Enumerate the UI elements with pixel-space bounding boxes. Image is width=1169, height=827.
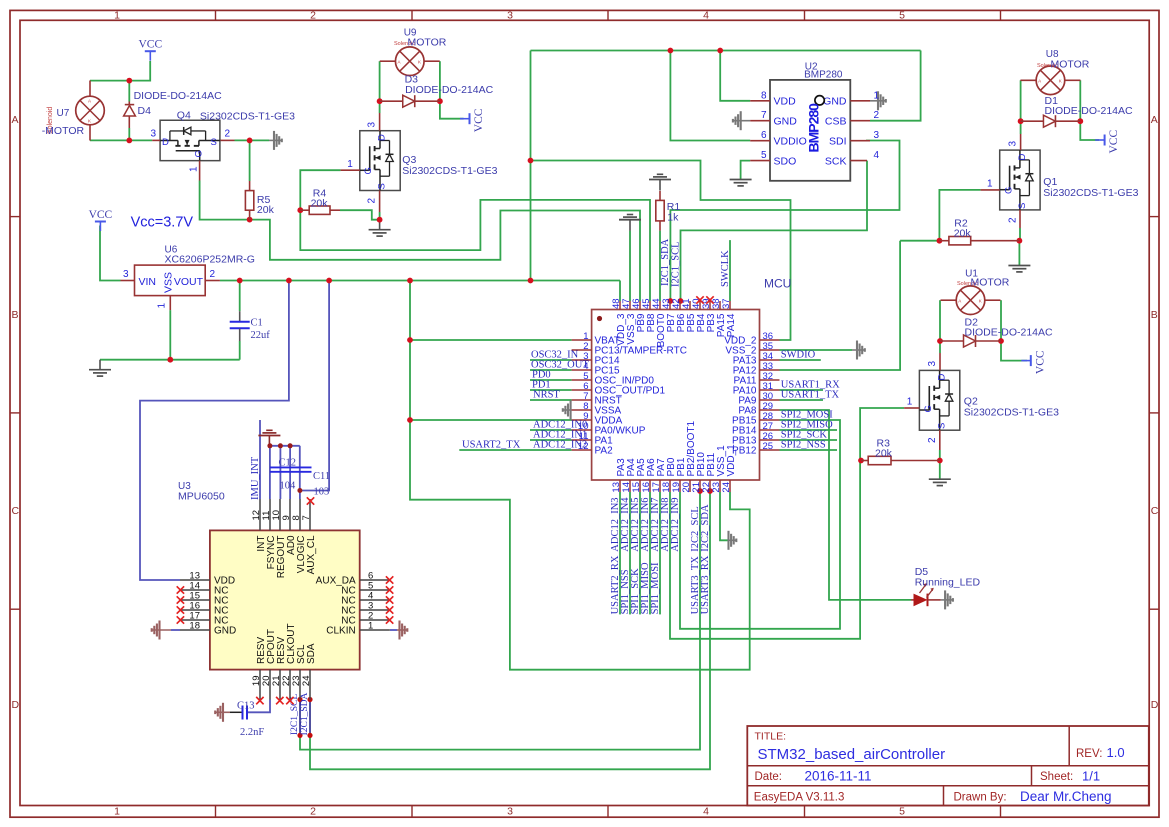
junction (1019.4,240.7)	[1017, 238, 1023, 244]
wire D3 to VCC flag	[440, 101, 464, 119]
junction (710,491)	[707, 488, 713, 494]
U6 pin 3 stub	[121, 280, 135, 282]
wire ADC12_IN7 stub	[659, 492, 661, 614]
no-connect X U3 left pin y=590	[177, 586, 184, 593]
svg-text:USART3_RX: USART3_RX	[700, 555, 711, 614]
svg-text:1: 1	[987, 179, 993, 190]
svg-text:A: A	[958, 298, 961, 303]
svg-text:C11: C11	[313, 471, 330, 482]
svg-text:2: 2	[310, 806, 316, 818]
no-connect X U3 pin21	[276, 697, 283, 704]
svg-text:5: 5	[761, 150, 767, 161]
wire ADC12_IN1 stub	[530, 439, 572, 441]
power flag VCC (U9)	[469, 113, 471, 124]
svg-text:S: S	[937, 423, 948, 429]
wire MPU GND pin lead (blue)	[171, 629, 180, 631]
wire Q4 gate net to MCU PB9	[250, 211, 640, 302]
diode D4	[125, 104, 134, 106]
wire Q1 source to R2 node	[1019, 228, 1021, 241]
Q1 pin 3 stub	[1020, 134, 1022, 150]
wire CLKIN lead (blue)	[390, 629, 397, 631]
junction MPU (300,735.4)	[297, 733, 302, 738]
resistor R4	[309, 206, 330, 214]
svg-text:3: 3	[507, 9, 513, 21]
ground arrow MCU VSSA	[562, 409, 571, 411]
wire VOUT 2.5V rail	[220, 280, 620, 282]
svg-text:Q4: Q4	[177, 110, 191, 122]
svg-text:4: 4	[703, 9, 709, 21]
wire VDD_2 feed rail	[531, 161, 791, 341]
svg-text:Sheet:: Sheet:	[1040, 771, 1073, 783]
svg-text:4: 4	[874, 150, 880, 161]
svg-text:1.0: 1.0	[1107, 745, 1125, 760]
svg-text:2016-11-11: 2016-11-11	[805, 769, 872, 784]
svg-text:18: 18	[189, 621, 200, 632]
svg-text:VIN: VIN	[139, 276, 157, 288]
wire I2C1_SDA net BMP SDI to MCU PB7	[670, 141, 899, 302]
svg-text:SWDIO: SWDIO	[781, 350, 816, 361]
svg-text:4: 4	[703, 806, 709, 818]
svg-text:A: A	[1151, 114, 1158, 126]
wire VCC riser to top rail	[530, 51, 532, 281]
svg-text:ADC12_IN9: ADC12_IN9	[670, 497, 681, 551]
svg-text:3: 3	[927, 361, 938, 367]
resistor R5	[245, 191, 253, 211]
wire VSS_2 to ground	[780, 349, 853, 351]
ground arrow MPU GND pin18	[151, 629, 171, 631]
svg-text:20k: 20k	[954, 228, 972, 240]
no-connect X U3 right pin y=610	[386, 606, 393, 613]
svg-text:K: K	[1059, 79, 1062, 84]
svg-text:SDI: SDI	[829, 135, 847, 147]
resistor R1	[656, 200, 664, 221]
junction (1080.3,121.2)	[1077, 118, 1083, 124]
junction (249.6,219.6)	[247, 217, 253, 223]
wire U8 motor left to D1	[1020, 80, 1022, 121]
junction (530.5,160.5)	[528, 158, 534, 164]
junction (1001,341)	[998, 338, 1004, 344]
wire PA12 to Q1 gate/R2	[900, 240, 939, 242]
ground arrow MPU CLKIN	[397, 629, 408, 631]
wire R5 top	[249, 140, 251, 181]
IC MCU STM32 box	[592, 310, 760, 481]
wire Q2 gate net to MCU PB0	[670, 408, 904, 639]
svg-text:-MOTOR: -MOTOR	[42, 125, 85, 137]
ground flipped above MPU (dark red)	[266, 429, 272, 431]
ground under Q3 source	[379, 220, 381, 230]
junction (1020.6,121.2)	[1018, 118, 1024, 124]
U2 pin stubs	[750, 100, 770, 102]
svg-text:Vcc=3.7V: Vcc=3.7V	[131, 215, 194, 231]
svg-text:7: 7	[301, 515, 312, 520]
ground arrow BMP GND pin1	[870, 100, 886, 102]
power flag VCC (U8)	[1104, 135, 1106, 146]
wire VBAT net vertical	[410, 281, 750, 670]
no-connect X U3 pin22	[286, 697, 293, 704]
junction (129.3,80.6)	[126, 78, 132, 84]
ground arrow D5 cathode	[941, 599, 954, 601]
svg-text:PA14: PA14	[726, 313, 737, 337]
svg-text:C: C	[12, 505, 20, 517]
svg-text:A: A	[397, 59, 400, 64]
wire CPOUT to C13 (blue)	[248, 700, 271, 713]
junction (249.6,140.4)	[247, 138, 253, 144]
no-connect X U3 left pin y=610	[177, 606, 184, 613]
wire 2.5V rail to MPU VDD (blue)	[140, 281, 289, 581]
svg-text:VDD: VDD	[774, 96, 797, 108]
svg-text:K: K	[418, 59, 421, 64]
wire U9 motor right to D3	[439, 61, 441, 101]
svg-text:2: 2	[225, 129, 231, 140]
svg-text:CSB: CSB	[825, 116, 847, 128]
svg-text:8: 8	[761, 90, 767, 101]
junction (329.1,280.5)	[326, 278, 332, 284]
svg-text:2.2nF: 2.2nF	[240, 727, 264, 738]
resistor R3	[868, 456, 891, 464]
IC U6 box	[135, 265, 206, 296]
wire Q3 source stub	[379, 212, 381, 220]
wire ADC12_IN0 stub	[530, 429, 572, 431]
svg-text:25: 25	[763, 441, 774, 452]
svg-text:AUX_CL: AUX_CL	[306, 535, 317, 574]
svg-text:C12: C12	[279, 458, 297, 469]
junction (940,341)	[937, 338, 943, 344]
junction (288.9,280.5)	[286, 278, 292, 284]
wire SPI2_SCK stub	[780, 439, 838, 441]
svg-text:TITLE:: TITLE:	[755, 731, 787, 743]
svg-text:3: 3	[367, 122, 378, 128]
svg-text:20k: 20k	[311, 198, 329, 210]
svg-text:3: 3	[123, 269, 129, 280]
wire Q2 drain stub	[939, 341, 941, 353]
svg-text:2: 2	[367, 198, 378, 204]
svg-text:1: 1	[907, 397, 913, 408]
wire USART1_RX stub	[780, 389, 824, 391]
wire VCC to U6 VIN	[100, 226, 121, 281]
ground arrow C13	[215, 711, 230, 713]
MCU pin1 marker dot	[597, 316, 602, 321]
junction (939.8,460.5)	[937, 458, 943, 464]
capacitor C12/C11 plates	[270, 466, 312, 468]
svg-text:SPI2_NSS: SPI2_NSS	[781, 440, 826, 451]
wire BMP SDO to ground	[741, 161, 751, 179]
junction (300.3,210.2)	[297, 207, 303, 213]
svg-text:VCC: VCC	[138, 39, 162, 51]
motor U9	[395, 47, 424, 76]
svg-text:D4: D4	[138, 105, 152, 117]
svg-text:C: C	[1151, 505, 1159, 517]
svg-text:SDO: SDO	[774, 155, 797, 167]
wire SPI2_MISO stub	[780, 429, 838, 431]
svg-text:STM32_based_airController: STM32_based_airController	[758, 746, 946, 763]
wire 2.5V rail to MPU VLOGIC (blue)	[300, 281, 329, 491]
svg-text:1: 1	[368, 621, 373, 632]
no-connect X U3 AUX_CL	[307, 497, 314, 504]
svg-text:24: 24	[301, 676, 312, 687]
ground arrow BMP GND pin7	[733, 120, 751, 122]
junction (379.6,101.2)	[377, 98, 383, 104]
svg-text:D: D	[12, 699, 20, 711]
wire SWDIO stub	[780, 359, 821, 361]
svg-text:MOTOR: MOTOR	[971, 277, 1010, 289]
wire VDDA	[410, 419, 572, 421]
wire MCU VDD_3 to rail	[619, 281, 621, 302]
svg-text:D: D	[376, 134, 387, 141]
svg-text:USART1_TX: USART1_TX	[781, 390, 840, 401]
svg-text:24: 24	[721, 482, 732, 493]
wire D4 bottom stub	[128, 128, 130, 140]
wire Q3 drain stub	[379, 101, 381, 113]
svg-text:7: 7	[761, 110, 767, 121]
wire Q1 drain stub	[1020, 121, 1022, 134]
junction (170.3,359.7)	[167, 357, 173, 363]
junction (670.4,50.5)	[668, 48, 674, 54]
svg-text:VCC: VCC	[1034, 350, 1046, 374]
svg-text:VDDIO: VDDIO	[774, 135, 807, 147]
svg-text:GND: GND	[214, 626, 236, 637]
wire C1 top lead	[239, 281, 241, 312]
wire D4 top stub	[128, 81, 130, 102]
svg-text:S: S	[1017, 203, 1028, 209]
Q2 pin 3 stub	[939, 353, 941, 370]
title block frame	[747, 726, 1149, 806]
svg-text:1/1: 1/1	[1082, 769, 1100, 784]
wire U1 motor right to D2	[1000, 300, 1002, 341]
junction MPU (300,699.5)	[297, 697, 302, 702]
wire VBAT	[410, 339, 572, 341]
wire OSC32_IN stub	[530, 359, 572, 361]
svg-text:3: 3	[150, 129, 156, 140]
svg-text:B: B	[12, 309, 19, 321]
svg-text:G: G	[1003, 187, 1014, 194]
transistor Q2	[919, 370, 959, 430]
svg-text:EasyEDA V3.11.3: EasyEDA V3.11.3	[754, 792, 845, 804]
svg-text:VOUT: VOUT	[174, 276, 204, 288]
ground under Q2/R3	[939, 478, 941, 481]
capacitor C13	[242, 706, 244, 720]
svg-text:SPI1_MOSI: SPI1_MOSI	[650, 562, 661, 614]
junction (939.4,240.7)	[937, 238, 943, 244]
svg-text:MPU6050: MPU6050	[178, 491, 225, 503]
svg-text:DIODE-DO-214AC: DIODE-DO-214AC	[1045, 105, 1134, 117]
diode D5 running LED	[911, 599, 914, 601]
svg-text:2: 2	[1007, 217, 1018, 223]
Q3 pin 2 stub	[379, 191, 381, 213]
wire ground rail under U6	[100, 359, 240, 361]
ground arrow MCU VSS_1	[728, 539, 737, 541]
svg-text:1: 1	[188, 166, 199, 172]
svg-text:Running_LED: Running_LED	[915, 577, 981, 589]
svg-text:C1: C1	[251, 318, 263, 329]
wire MPU top gnd bus (blue)	[270, 445, 300, 447]
wire ADC12_IN6 stub	[649, 492, 651, 614]
ground flipped above R1	[657, 173, 663, 175]
svg-text:MOTOR: MOTOR	[408, 37, 447, 49]
wire MPU SDA segment (dark blue)	[309, 700, 311, 736]
svg-text:103: 103	[314, 487, 330, 498]
svg-text:ADC12_IN2: ADC12_IN2	[533, 440, 587, 451]
wire R2 node to ground	[1018, 241, 1020, 265]
svg-text:VCC: VCC	[473, 108, 485, 132]
svg-text:VDD_1: VDD_1	[726, 444, 737, 477]
wire SPI2_NSS stub	[780, 449, 838, 451]
svg-text:I2C1_SCL: I2C1_SCL	[670, 241, 681, 287]
motor U8	[1036, 66, 1065, 95]
svg-text:3: 3	[507, 806, 513, 818]
Q4 pin 2 stub	[221, 139, 235, 141]
svg-text:BMP280: BMP280	[804, 70, 843, 81]
wire USART1_TX stub	[780, 399, 824, 401]
ground arrow right of Q4	[269, 139, 282, 141]
svg-text:2: 2	[874, 110, 880, 121]
svg-text:BMP280: BMP280	[806, 103, 822, 153]
MCU pin stubs	[572, 339, 592, 341]
svg-text:MOTOR: MOTOR	[1051, 59, 1090, 71]
transistor Q1	[1000, 150, 1040, 210]
transistor Q4	[160, 120, 220, 160]
Q4 pin 3 stub	[152, 139, 160, 141]
svg-text:1: 1	[874, 90, 880, 101]
junction (439.9,101.2)	[437, 98, 443, 104]
svg-text:A: A	[12, 114, 19, 126]
svg-text:K: K	[979, 298, 982, 303]
wire FSYNC to gnd bus (blue)	[269, 446, 271, 499]
svg-text:SDA: SDA	[306, 643, 317, 664]
capacitor C1	[239, 311, 241, 321]
U2 GND pin inversion circle	[815, 96, 824, 105]
ground under BMP SDO	[740, 178, 742, 181]
junction (410,420)	[407, 417, 413, 423]
wire Q4 source to ground	[235, 139, 270, 141]
svg-text:G: G	[923, 405, 934, 412]
svg-text:PA2: PA2	[595, 446, 614, 457]
wire U7 motor bottom to Q4 drain	[90, 139, 152, 141]
junction MPU (290.1,445.8)	[288, 443, 293, 448]
U6 pin 2 stub	[205, 280, 220, 282]
no-connect X U3 right pin y=580	[386, 576, 393, 583]
svg-text:S: S	[376, 183, 387, 189]
ground flipped at MCU VSS_3	[627, 214, 633, 216]
resistor R2	[949, 237, 971, 245]
wire U6 VSS to ground rail	[169, 310, 171, 360]
wire I2C2_SDA MCU PB11 to MPU SDA	[310, 492, 710, 769]
wire VCC to U7 motor top	[90, 61, 150, 81]
wire REGOUT riser (blue)	[279, 446, 281, 499]
svg-text:5: 5	[899, 9, 905, 21]
wire PA8 to running LED	[780, 410, 912, 600]
Q3 pin 3 stub	[379, 113, 381, 131]
svg-text:DIODE-DO-214AC: DIODE-DO-214AC	[405, 84, 494, 96]
wire ADC12_IN3 stub	[619, 492, 621, 614]
svg-text:G: G	[363, 167, 374, 174]
transistor Q3	[360, 131, 400, 191]
svg-text:I2C1_SDA: I2C1_SDA	[300, 693, 310, 736]
svg-text:XC6206P252MR-G: XC6206P252MR-G	[165, 254, 255, 266]
junction (410,340)	[407, 337, 413, 343]
svg-text:Si2302CDS-T1-GE3: Si2302CDS-T1-GE3	[402, 165, 497, 177]
wire C1 bottom lead	[239, 341, 241, 360]
svg-text:VCC: VCC	[89, 209, 113, 221]
wire C11 leads (blue)	[299, 446, 301, 491]
wire BMP VDDIO to top rail	[670, 51, 750, 141]
svg-text:Date:: Date:	[755, 771, 783, 783]
ground arrow MCU VSS_2	[852, 349, 865, 351]
junction (410,280.5)	[407, 278, 413, 284]
U6 pin 1 stub	[169, 296, 171, 311]
wire IMU_INT stub (blue)	[259, 420, 261, 499]
svg-text:104: 104	[280, 481, 297, 492]
svg-text:CLKIN: CLKIN	[326, 626, 355, 637]
svg-text:20k: 20k	[257, 204, 275, 216]
wire R4 right to Q3 source	[340, 210, 380, 220]
svg-text:B: B	[1151, 309, 1158, 321]
wire MCU PB1 to SPI2_MOSI/PB15	[680, 420, 840, 629]
svg-text:D: D	[937, 374, 948, 381]
wire ADC12_IN5 stub	[639, 492, 641, 614]
svg-text:37: 37	[721, 298, 732, 309]
ground U6 VSS rail	[99, 360, 101, 370]
wire top rail to BMP CSB	[870, 51, 921, 121]
svg-text:1: 1	[347, 159, 353, 170]
wire U9 motor left to D3	[379, 61, 381, 101]
svg-text:GND: GND	[774, 116, 798, 128]
wire Q1 gate to PA12 riser	[939, 190, 980, 241]
IC U2 BMP280 box	[770, 80, 850, 181]
wire AD0 riser (blue)	[289, 446, 291, 499]
svg-text:5: 5	[899, 806, 905, 818]
svg-text:VSS: VSS	[163, 272, 175, 293]
junction MPU (280.4,445.8)	[278, 443, 283, 448]
svg-text:NRST: NRST	[533, 390, 560, 401]
junction (239.7,280.5)	[237, 278, 243, 284]
no-connect X U3 right pin y=590	[386, 586, 393, 593]
wire ADC12_IN4 stub	[629, 492, 631, 614]
svg-text:GND: GND	[823, 96, 847, 108]
svg-text:Si2302CDS-T1-GE3: Si2302CDS-T1-GE3	[1043, 187, 1138, 199]
junction (129.3,140.4)	[126, 138, 132, 144]
diode D1	[1021, 120, 1044, 122]
wire U1 motor left to D2	[939, 300, 941, 341]
svg-text:SWCLK: SWCLK	[720, 250, 731, 287]
svg-text:C13: C13	[237, 701, 255, 712]
wire VLOGIC pin stub (blue)	[299, 491, 301, 500]
svg-text:1: 1	[114, 806, 120, 818]
svg-text:D: D	[162, 137, 169, 148]
ground under Q1/R2	[1018, 264, 1020, 267]
svg-text:K: K	[88, 118, 91, 123]
motor U1	[956, 286, 985, 315]
no-connect X U3 right pin y=600	[386, 596, 393, 603]
Q3 pin 1 stub	[341, 169, 360, 171]
svg-text:1k: 1k	[667, 212, 679, 224]
Q2 pin 1 stub	[904, 407, 919, 409]
wire D2 to VCC flag	[1001, 341, 1027, 361]
power flag VCC (U1)	[1030, 355, 1032, 366]
no-connect X U3 pin19	[256, 697, 263, 704]
Q1 pin 2 stub	[1019, 210, 1021, 228]
svg-text:Drawn By:: Drawn By:	[954, 792, 1007, 804]
svg-text:I2C2_SDA: I2C2_SDA	[700, 504, 711, 552]
no-connect X U3 right pin y=620	[386, 616, 393, 623]
svg-text:U7: U7	[57, 108, 70, 119]
junction (720.2,50.5)	[717, 48, 723, 54]
Q2 pin 2 stub	[939, 430, 941, 450]
wire OSC32_OUT stub	[530, 369, 572, 371]
wire Q3 gate net to MCU PB8	[300, 170, 650, 301]
wire PD0 stub	[530, 379, 572, 381]
motor U7	[76, 96, 105, 125]
svg-text:G: G	[194, 150, 205, 157]
